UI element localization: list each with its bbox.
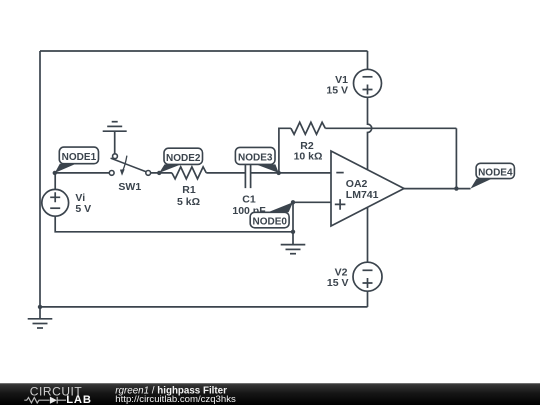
switch arrowhead bbox=[120, 169, 125, 176]
wire: V1 top lead bbox=[367, 51, 369, 69]
CircuitLab logo diode triangle bbox=[50, 397, 57, 404]
wire: left frame vertical bbox=[39, 51, 41, 307]
wire: switch right terminal to R1 bbox=[151, 172, 172, 174]
wire: op-amp plus input bbox=[293, 201, 331, 203]
op-amp OA2 bbox=[331, 151, 404, 226]
svg-text:NODE1: NODE1 bbox=[62, 152, 97, 163]
svg-text:R1: R1 bbox=[182, 184, 196, 196]
wire: inverting node up to R2 bbox=[279, 128, 291, 173]
wire: NODE1 node to switch left terminal bbox=[55, 172, 110, 174]
svg-text:C1: C1 bbox=[242, 193, 256, 205]
wire: op-amp output bbox=[404, 188, 471, 190]
svg-text:http://circuitlab.com/czq3hks: http://circuitlab.com/czq3hks bbox=[115, 394, 236, 405]
voltage source Vi bbox=[42, 189, 69, 216]
wire: V2 bottom lead bbox=[367, 291, 369, 307]
inverted ground above switch bbox=[103, 122, 127, 154]
node flag NODE4 bbox=[471, 163, 515, 188]
CircuitLab logo resistor-diode glyph bbox=[24, 397, 66, 404]
voltage source V2 bbox=[353, 262, 382, 291]
wire: C1 to op-amp inverting input bbox=[251, 172, 331, 174]
wire: top frame horizontal bbox=[40, 50, 368, 52]
svg-text:10 kΩ: 10 kΩ bbox=[294, 150, 323, 162]
junction dot bottom left bbox=[38, 305, 42, 309]
svg-text:OA2: OA2 bbox=[346, 178, 368, 190]
svg-text:NODE2: NODE2 bbox=[166, 153, 201, 164]
capacitor C1 plates bbox=[245, 162, 250, 188]
node flag NODE1 bbox=[55, 147, 99, 173]
svg-text:5 kΩ: 5 kΩ bbox=[177, 196, 200, 208]
svg-text:NODE3: NODE3 bbox=[238, 153, 273, 164]
voltage source V1 bbox=[354, 69, 382, 97]
junction dot NODE2 bbox=[157, 171, 161, 175]
switch SW1 bbox=[109, 154, 150, 176]
wire: Vi bottom lead bbox=[55, 216, 293, 232]
svg-text:5 V: 5 V bbox=[75, 203, 91, 215]
junction dot NODE3 bbox=[277, 171, 281, 175]
wire: R2 to feedback corner bbox=[325, 127, 456, 129]
node flag NODE0 bbox=[250, 202, 293, 228]
wire: V1 bottom to op-amp V+ pin (with hop over feedback wire) bbox=[368, 97, 372, 170]
svg-text:LAB: LAB bbox=[66, 394, 92, 405]
node flag NODE2 bbox=[159, 148, 202, 173]
wire: bottom frame horizontal bbox=[40, 306, 368, 308]
svg-text:LM741: LM741 bbox=[346, 189, 379, 201]
svg-text:SW1: SW1 bbox=[118, 181, 141, 193]
ground (bottom left) bbox=[28, 307, 53, 328]
junction dot plus input bbox=[291, 200, 295, 204]
wire: feedback vertical down to output bbox=[455, 128, 457, 188]
svg-text:15 V: 15 V bbox=[327, 277, 349, 289]
svg-text:NODE4: NODE4 bbox=[478, 167, 513, 178]
ground (below non-inverting input) bbox=[281, 232, 306, 254]
wire: op-amp V- pin to V2 top bbox=[367, 207, 369, 262]
resistor R2 bbox=[291, 122, 325, 134]
wire: NODE1 node down to Vi top bbox=[54, 173, 56, 190]
svg-text:15 V: 15 V bbox=[326, 85, 348, 97]
junction dot NODE1 bbox=[53, 171, 57, 175]
resistor R1 bbox=[172, 167, 206, 179]
junction dot output bbox=[454, 186, 458, 190]
svg-text:NODE0: NODE0 bbox=[252, 216, 287, 227]
junction dot ground corner bbox=[291, 230, 295, 234]
wire: plus node down to ground junction bbox=[292, 202, 294, 232]
wire: R1 to C1 bbox=[206, 172, 245, 174]
svg-text:Vi: Vi bbox=[75, 192, 85, 204]
node flag NODE3 bbox=[235, 147, 278, 173]
footer bar bbox=[0, 383, 540, 405]
